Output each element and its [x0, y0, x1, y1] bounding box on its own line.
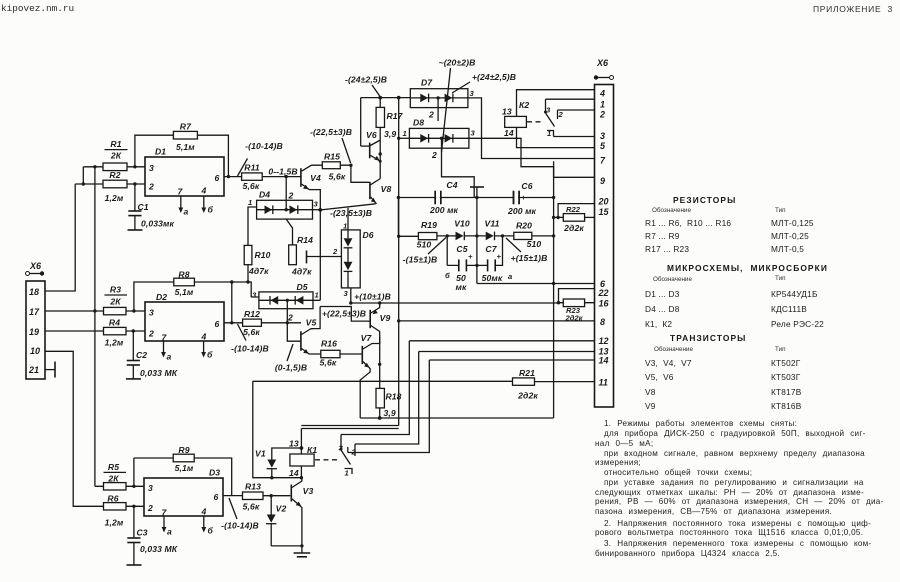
capacitor C3 [127, 506, 178, 565]
wire D7 pin3 to X6 pin7 [468, 98, 595, 159]
svg-text:14: 14 [599, 356, 609, 366]
svg-text:+: + [497, 252, 502, 261]
svg-text:R3: R3 [110, 285, 121, 295]
svg-text:а: а [184, 207, 189, 217]
svg-text:V4: V4 [310, 173, 321, 183]
svg-text:а: а [167, 527, 172, 537]
svg-text:V8: V8 [381, 184, 392, 194]
svg-text:5,6к: 5,6к [320, 358, 337, 368]
diode block D7 [410, 78, 474, 122]
wire pin10 down to R6 row [45, 351, 104, 506]
svg-text:4: 4 [599, 89, 605, 99]
svg-text:D1: D1 [155, 147, 166, 157]
D1 pin6 wire + node [224, 176, 242, 178]
node dots D1 inputs [133, 165, 136, 168]
node dots +10V rail [349, 301, 352, 304]
diode V2 [266, 496, 286, 546]
svg-text:16: 16 [599, 299, 610, 309]
svg-text:0,033 МК: 0,033 МК [140, 368, 178, 378]
transistor V6 [361, 130, 381, 161]
svg-text:7: 7 [600, 156, 606, 166]
svg-text:R19: R19 [421, 220, 437, 230]
svg-text:14: 14 [504, 128, 514, 138]
svg-text:4д7к: 4д7к [291, 267, 312, 277]
V5 collector to +22,5 node [311, 307, 320, 329]
svg-text:-(22,5±3)В: -(22,5±3)В [310, 127, 352, 137]
resistor R17 [376, 98, 404, 179]
svg-text:15: 15 [599, 207, 610, 217]
svg-text:13: 13 [502, 107, 512, 117]
svg-text:R20: R20 [516, 221, 532, 231]
svg-text:R14: R14 [297, 235, 313, 245]
svg-text:2: 2 [431, 150, 437, 160]
D2 pin7 pin4 arrows [161, 341, 213, 362]
svg-text:1: 1 [343, 222, 347, 231]
label 5,1м R8 leader / D2 out [224, 322, 243, 324]
svg-text:D4: D4 [259, 190, 270, 200]
svg-text:V6: V6 [366, 130, 377, 140]
svg-text:0--1,5В: 0--1,5В [268, 166, 297, 176]
svg-text:22: 22 [598, 288, 609, 298]
svg-text:3,9: 3,9 [384, 408, 396, 418]
diode V11 [485, 219, 514, 241]
svg-text:R2: R2 [109, 170, 120, 180]
resistor R7 (feedback) [135, 122, 229, 177]
dashed link K2 [527, 121, 542, 123]
resistor R6 [104, 494, 145, 528]
svg-text:+: + [468, 252, 473, 261]
svg-text:V2: V2 [276, 504, 287, 514]
diode block D5 [251, 282, 320, 323]
V8 emitter wire to D6 node [321, 204, 376, 210]
svg-text:R16: R16 [321, 339, 337, 349]
wire D8 pin1 to -24 bus [399, 137, 410, 139]
svg-text:С3: С3 [137, 528, 148, 538]
svg-text:(0-1,5)В: (0-1,5)В [275, 363, 307, 373]
wire pin17 to R3 [45, 310, 104, 312]
svg-text:5,6к: 5,6к [243, 181, 260, 191]
svg-text:5: 5 [600, 141, 606, 151]
svg-text:5,6к: 5,6к [329, 172, 346, 182]
svg-text:+(10±1)В: +(10±1)В [354, 292, 391, 302]
transistor V8 [370, 179, 392, 204]
svg-text:R9: R9 [178, 445, 189, 455]
svg-text:200 мк: 200 мк [507, 206, 537, 216]
svg-text:2: 2 [287, 313, 293, 323]
svg-text:а: а [167, 352, 172, 362]
resistor R18 [376, 337, 402, 420]
svg-text:0,033 МК: 0,033 МК [140, 544, 178, 554]
svg-text:2д2к: 2д2к [517, 391, 538, 401]
resistor R16 [320, 339, 362, 368]
relay K2 in loop to X6 pins 4 and 5 [502, 90, 595, 148]
svg-text:D6: D6 [363, 230, 374, 240]
svg-text:V9: V9 [380, 313, 391, 323]
svg-text:13: 13 [289, 439, 299, 449]
svg-text:-(10-14)В: -(10-14)В [231, 344, 269, 354]
wire pin19 to R4 [45, 330, 104, 332]
svg-text:R13: R13 [245, 482, 261, 492]
wire D8 pin3 to X6 pin9 [469, 138, 595, 177]
svg-text:К1: К1 [307, 445, 317, 455]
svg-text:R21: R21 [519, 368, 535, 378]
transistor V3 [291, 478, 313, 546]
svg-text:3: 3 [546, 106, 551, 115]
svg-text:2д2к: 2д2к [565, 314, 584, 323]
-24 bus vertical down to K1 area [301, 98, 398, 426]
svg-text:3: 3 [314, 200, 319, 209]
node dots -24V top node [378, 96, 382, 100]
svg-text:R5: R5 [108, 462, 119, 472]
svg-text:+(22,5±3)В: +(22,5±3)В [322, 309, 366, 319]
svg-text:510: 510 [527, 239, 542, 249]
svg-text:R7: R7 [180, 122, 192, 132]
bottom common wire to bus [360, 417, 553, 419]
connector X6 (left) [26, 261, 46, 379]
resistor R10 [244, 245, 270, 281]
capacitor C7 [475, 236, 512, 283]
wire R11 to V4 base [262, 176, 301, 178]
svg-text:17: 17 [29, 307, 40, 317]
D1 pin7 pin4 arrows [178, 196, 213, 217]
svg-text:510: 510 [417, 240, 432, 250]
pin11 net through R21 [253, 380, 513, 382]
D3 pin6 wire [223, 495, 243, 497]
diode V10 [454, 219, 485, 241]
filter box top wires / C4 C6 rail [398, 197, 553, 199]
svg-text:R15: R15 [324, 152, 340, 162]
svg-text:б: б [207, 350, 213, 360]
svg-text:R22: R22 [566, 205, 581, 214]
svg-text:2К: 2К [109, 297, 121, 307]
svg-text:21: 21 [28, 365, 39, 375]
diode stack D6 [307, 208, 374, 303]
svg-text:+: + [521, 193, 526, 202]
capacitor C2 [126, 331, 178, 379]
svg-text:D5: D5 [297, 282, 308, 292]
svg-text:1: 1 [248, 198, 252, 207]
resistor R11 [242, 163, 263, 192]
svg-text:2: 2 [288, 191, 294, 201]
wire +22,5 node to V9 base [320, 307, 370, 322]
resistor R20 [514, 221, 554, 250]
svg-text:V11: V11 [485, 219, 500, 229]
svg-text:б: б [445, 271, 450, 280]
capacitor C4 [429, 180, 459, 215]
svg-text:D7: D7 [421, 78, 433, 88]
pin12 13 14 rails [409, 340, 594, 342]
svg-text:-(24±2,5)В: -(24±2,5)В [345, 75, 387, 85]
svg-text:4: 4 [201, 332, 207, 342]
svg-text:2: 2 [558, 110, 564, 119]
svg-text:5,1м: 5,1м [175, 287, 194, 297]
nested wires to X6 pins 12 13 14 [301, 428, 398, 430]
svg-text:б: б [208, 205, 214, 215]
svg-text:3: 3 [252, 291, 257, 300]
svg-text:2: 2 [599, 110, 605, 120]
resistor R3 [104, 285, 146, 315]
svg-text:1: 1 [600, 100, 605, 110]
bus vertical right [553, 161, 555, 418]
svg-text:+(15±1)В: +(15±1)В [511, 253, 548, 263]
node dots common bus [552, 196, 555, 199]
svg-text:0,033мк: 0,033мк [141, 219, 174, 229]
svg-text:2: 2 [428, 110, 434, 120]
switch K1 contacts [339, 435, 357, 478]
svg-text:б: б [208, 526, 214, 536]
svg-text:С5: С5 [456, 244, 467, 254]
svg-text:-(15±1)В: -(15±1)В [403, 255, 438, 265]
resistor R5 [95, 462, 144, 490]
svg-text:V3: V3 [303, 486, 314, 496]
resistor R14 [286, 219, 313, 276]
svg-text:5,1м: 5,1м [176, 142, 195, 152]
svg-text:V7: V7 [361, 333, 373, 343]
svg-text:R10: R10 [255, 250, 271, 260]
svg-text:5,6к: 5,6к [243, 327, 260, 337]
resistor R1 [83, 139, 145, 171]
svg-text:X6: X6 [29, 261, 42, 271]
resistor R2 [75, 170, 145, 203]
svg-text:R17: R17 [387, 111, 404, 121]
svg-text:R1: R1 [110, 139, 121, 149]
svg-text:9: 9 [600, 176, 605, 186]
svg-text:5,1м: 5,1м [175, 463, 194, 473]
connector X6 (right) [594, 58, 614, 407]
svg-text:7: 7 [178, 187, 184, 197]
svg-text:4: 4 [201, 186, 207, 196]
svg-text:R18: R18 [386, 392, 402, 402]
svg-text:3: 3 [148, 483, 153, 493]
diode V1 [255, 448, 301, 478]
svg-text:3: 3 [471, 129, 476, 138]
wire D4 pin3 to D5 pin1 [319, 210, 321, 300]
capacitor C1 [128, 184, 175, 230]
svg-text:С4: С4 [446, 180, 457, 190]
relay K1 coil [289, 429, 317, 479]
svg-text:8: 8 [600, 317, 605, 327]
svg-text:3: 3 [470, 89, 475, 98]
svg-text:50мк: 50мк [482, 273, 503, 283]
svg-text:2: 2 [147, 503, 153, 513]
svg-text:D3: D3 [209, 468, 220, 478]
svg-text:2К: 2К [110, 151, 122, 161]
svg-text:3,9: 3,9 [384, 129, 396, 139]
-(24±2,5)В node wire [361, 97, 411, 99]
ground at V3 emitter [271, 545, 302, 547]
diode block D8 [403, 118, 476, 198]
svg-text:4д7к: 4д7к [248, 266, 269, 276]
svg-text:2д2к: 2д2к [563, 223, 584, 233]
svg-text:V10: V10 [454, 219, 470, 229]
svg-text:6: 6 [215, 319, 220, 329]
wires K2 switch to X6 pins 1 2 3 [546, 98, 595, 100]
svg-text:R11: R11 [244, 163, 260, 173]
svg-text:3: 3 [149, 308, 154, 318]
svg-text:3: 3 [149, 163, 154, 173]
svg-text:D8: D8 [413, 118, 424, 128]
svg-text:а: а [508, 272, 512, 281]
node bus left (R1 row to R5 row) [83, 167, 95, 487]
svg-text:1: 1 [345, 469, 349, 478]
svg-text:18: 18 [29, 287, 39, 297]
op-amp D2 [145, 292, 224, 343]
+10 rail from D6 pin3 to R23 [351, 302, 559, 304]
node wire R8/R10/D5 [194, 282, 251, 297]
svg-text:1,2м: 1,2м [105, 193, 124, 203]
svg-text:1,2м: 1,2м [105, 518, 124, 528]
center tap T bar [476, 188, 478, 284]
wire node2 down to D4 [285, 177, 287, 210]
svg-text:-(10-14)В: -(10-14)В [221, 521, 259, 531]
node dots D3 inputs [132, 485, 135, 488]
capacitor C6 [507, 181, 537, 216]
switch K2 contacts [544, 99, 564, 138]
ground pin21 [45, 369, 55, 371]
op-amp D1 [145, 147, 224, 197]
svg-text:4: 4 [201, 507, 207, 517]
svg-text:+(24±2,5)В: +(24±2,5)В [472, 72, 516, 82]
svg-text:1: 1 [315, 291, 319, 300]
svg-text:V1: V1 [255, 449, 266, 459]
svg-text:2: 2 [148, 182, 154, 192]
transistor V9 [370, 303, 390, 337]
transistor V4 [301, 165, 322, 210]
svg-text:6: 6 [214, 492, 219, 502]
svg-text:14: 14 [289, 468, 299, 478]
pin8 rail [399, 320, 595, 322]
svg-text:10: 10 [30, 346, 40, 356]
D3 pin7 pin4 arrows [162, 516, 214, 537]
svg-text:3: 3 [344, 289, 349, 298]
svg-text:R4: R4 [109, 318, 120, 328]
svg-text:С2: С2 [136, 350, 147, 360]
wire pin18 to R2 row [45, 184, 75, 291]
svg-text:3: 3 [600, 131, 605, 141]
svg-text:200 мк: 200 мк [429, 205, 459, 215]
op-amp D3 [144, 468, 223, 518]
node dots -24V bus [397, 235, 400, 238]
svg-text:12: 12 [599, 336, 609, 346]
resistor R4 [104, 318, 146, 348]
resistor R8 (feedback D2) [134, 270, 232, 323]
wire bottom V1/K1/V3 collector [253, 381, 302, 477]
svg-text:20: 20 [598, 197, 609, 207]
svg-text:2: 2 [148, 329, 154, 339]
resistor R21 [513, 368, 595, 401]
svg-text:1,2м: 1,2м [105, 338, 124, 348]
diode block D4 [248, 190, 322, 246]
svg-text:С1: С1 [138, 202, 149, 212]
resistor R22 with U-link to pin20 [552, 204, 595, 233]
svg-text:-(10-14)В: -(10-14)В [245, 141, 283, 151]
svg-text:11: 11 [599, 378, 608, 388]
svg-text:-(23,5±3)В: -(23,5±3)В [330, 208, 372, 218]
capacitor C5 [445, 236, 477, 292]
svg-text:19: 19 [29, 327, 39, 337]
svg-text:5,6к: 5,6к [243, 502, 260, 512]
dashed link K1 [315, 459, 337, 461]
svg-text:V5: V5 [306, 318, 317, 328]
svg-text:D2: D2 [156, 292, 167, 302]
svg-text:К2: К2 [519, 100, 529, 110]
resistor R19 [398, 220, 455, 250]
resistor R13 [243, 482, 291, 512]
svg-text:С6: С6 [521, 181, 532, 191]
resistor R9 (feedback D3) [134, 445, 232, 496]
resistor R15 [322, 152, 369, 183]
svg-text:6: 6 [215, 173, 220, 183]
svg-text:X6: X6 [596, 58, 609, 68]
svg-text:2: 2 [332, 247, 338, 256]
resistor R12 [243, 309, 301, 337]
transistor V7 [360, 333, 380, 418]
node dots D2 inputs [132, 309, 135, 312]
transistor V5 [287, 318, 321, 355]
svg-text:R12: R12 [244, 309, 260, 319]
svg-text:~(20±2)В: ~(20±2)В [439, 58, 476, 68]
resistor R23 with U-link to pin22 [559, 289, 595, 323]
svg-text:1: 1 [403, 129, 407, 138]
svg-text:мк: мк [456, 282, 467, 292]
pin6 rail [477, 283, 595, 285]
